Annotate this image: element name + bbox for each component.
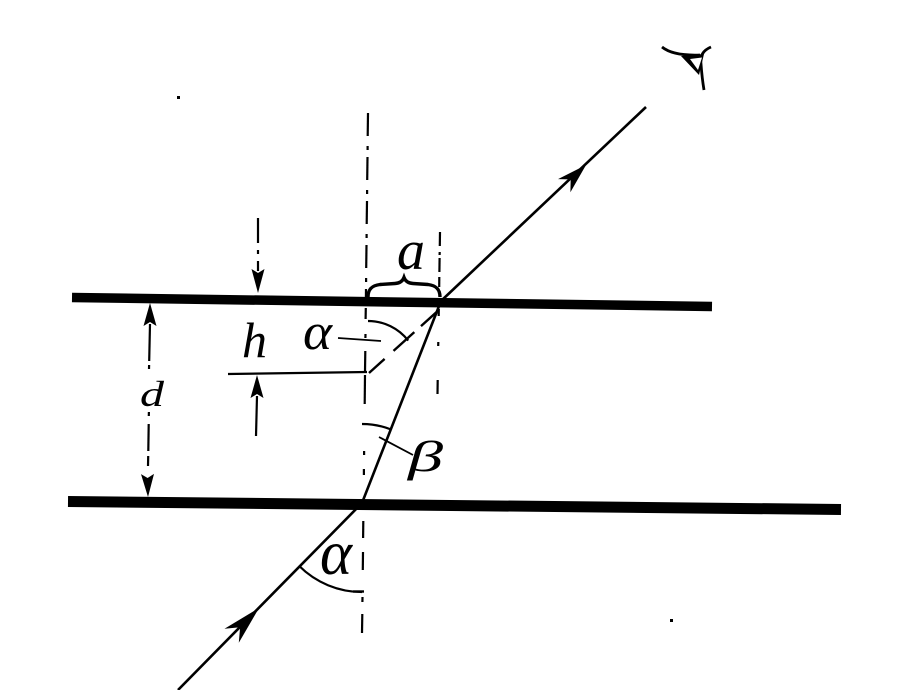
dimension h lower arrow tail xyxy=(256,396,257,436)
leader line from upper alpha label xyxy=(338,338,381,341)
svg-text:α: α xyxy=(320,518,354,588)
leader line from beta label xyxy=(379,437,413,455)
eye: pupil highlight xyxy=(690,58,702,71)
brace for lateral displacement a xyxy=(368,278,440,298)
eye: right eyelid arc xyxy=(701,47,711,90)
normal line 2 (dash-dot vertical through upper exit point) xyxy=(439,232,441,246)
incident ray xyxy=(178,503,362,690)
dimension h lower arrowhead xyxy=(251,375,264,398)
exit ray to eye xyxy=(441,107,646,301)
arc of beta angle xyxy=(362,424,391,429)
svg-text:β: β xyxy=(406,434,444,481)
speck dot upper left xyxy=(177,96,180,99)
svg-text:d: d xyxy=(140,374,165,414)
dimension d line lower segment xyxy=(148,412,150,416)
dashed backward extension of exit ray xyxy=(369,309,440,373)
svg-text:α: α xyxy=(303,304,334,361)
tick at end of lower alpha arc xyxy=(353,590,364,592)
dimension d upper arrowhead xyxy=(144,303,157,326)
speck dot lower right xyxy=(670,619,673,622)
arc of lower alpha angle xyxy=(299,566,362,592)
exit ray arrowhead xyxy=(558,165,586,192)
eye: upper-left eyelid arc xyxy=(662,47,700,55)
dimension h upper arrowhead xyxy=(252,269,265,293)
normal line 1 (dash-dot vertical through lower incidence point) xyxy=(367,113,369,136)
glass plate bottom surface xyxy=(68,502,841,510)
svg-text:a: a xyxy=(397,220,425,282)
arc of upper alpha angle xyxy=(368,321,408,341)
eye: pupil xyxy=(681,54,704,75)
dimension h upper arrow tail xyxy=(257,218,259,243)
dimension d lower arrowhead xyxy=(141,474,154,497)
refracted ray inside plate xyxy=(362,301,441,503)
dimension d line upper segment xyxy=(148,324,151,361)
incident ray arrowhead xyxy=(225,608,260,643)
svg-text:h: h xyxy=(242,312,267,368)
glass plate top surface xyxy=(72,298,712,307)
horizontal baseline of h (apparent surface level) xyxy=(228,372,367,374)
